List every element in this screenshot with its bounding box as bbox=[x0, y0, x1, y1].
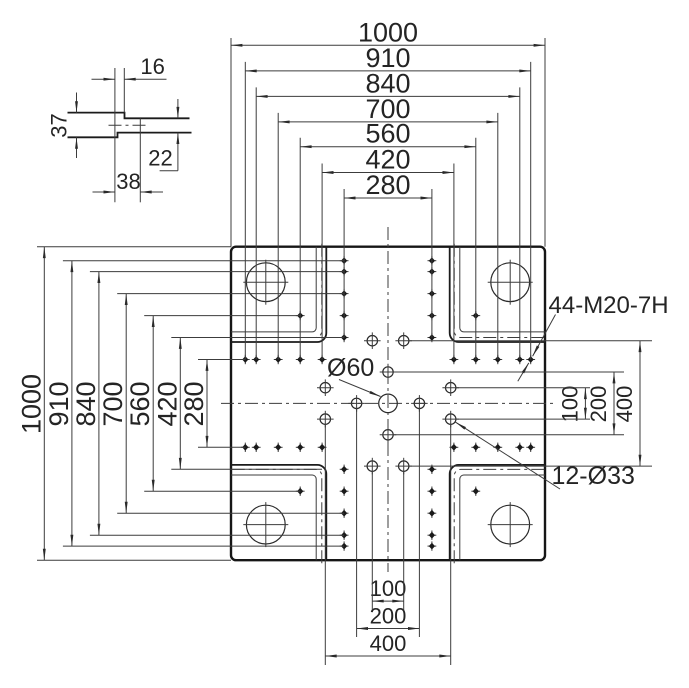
svg-text:200: 200 bbox=[370, 604, 407, 629]
dimension 420 (left chain) bbox=[179, 338, 181, 470]
dimension 16 (detail) bbox=[92, 78, 115, 80]
detail extension line V2 bbox=[123, 68, 125, 113]
tie-bar hole bottom-left bbox=[243, 502, 288, 547]
12x O33 holes bbox=[317, 332, 459, 474]
svg-text:400: 400 bbox=[612, 386, 637, 423]
svg-text:400: 400 bbox=[370, 631, 407, 656]
platen plate outline 1000x1000 bbox=[231, 247, 545, 561]
right chain extension lines bbox=[393, 341, 652, 466]
dimension 200 (right chain) bbox=[613, 372, 615, 435]
M20 tapped holes: bottom row y=+140 bbox=[241, 443, 535, 452]
svg-text:700: 700 bbox=[98, 381, 128, 426]
central O60 hole bbox=[379, 394, 398, 413]
svg-text:37: 37 bbox=[47, 113, 72, 137]
dimension 700 (top chain) bbox=[278, 121, 498, 123]
dimension 840 (left chain) bbox=[98, 272, 100, 536]
dimension 840 (top chain) bbox=[256, 95, 520, 97]
svg-text:200: 200 bbox=[586, 386, 611, 423]
svg-text:280: 280 bbox=[179, 381, 209, 426]
M20 tapped holes: left column x=-140 bbox=[340, 256, 349, 551]
svg-text:22: 22 bbox=[148, 146, 172, 171]
dimension 420 (top chain) bbox=[322, 172, 454, 174]
M20 tapped holes: top row y=-140 bbox=[241, 355, 535, 364]
corner pad top-left bbox=[228, 244, 326, 342]
svg-text:12-Ø33: 12-Ø33 bbox=[552, 462, 635, 490]
top chain extension lines bbox=[231, 38, 545, 360]
svg-text:100: 100 bbox=[370, 576, 407, 601]
leader for 12-O33 bbox=[456, 422, 560, 489]
dimension 1000 (left chain) bbox=[43, 247, 45, 561]
dimension 400 (right chain) bbox=[639, 341, 641, 466]
detail extension line V1 bbox=[114, 68, 116, 202]
svg-text:910: 910 bbox=[44, 381, 74, 426]
dimension 700 (left chain) bbox=[125, 294, 127, 514]
dimension 560 (top chain) bbox=[300, 146, 476, 148]
svg-text:44-M20-7H: 44-M20-7H bbox=[549, 292, 669, 319]
svg-text:16: 16 bbox=[140, 54, 164, 79]
corner pad bottom-right bbox=[450, 465, 548, 563]
tie-bar hole top-right bbox=[488, 260, 533, 305]
dimension 100 (right chain) bbox=[584, 388, 586, 419]
dimension 37 (detail) bbox=[76, 93, 78, 113]
detail view: T-slot cross-section profile bbox=[68, 113, 192, 138]
svg-text:420: 420 bbox=[152, 381, 182, 426]
svg-text:Ø60: Ø60 bbox=[327, 354, 374, 382]
dimension 280 (top chain) bbox=[344, 197, 432, 199]
bottom chain extension lines bbox=[325, 409, 450, 665]
svg-text:840: 840 bbox=[71, 381, 101, 426]
tie-bar hole top-left bbox=[243, 260, 288, 305]
svg-text:1000: 1000 bbox=[16, 374, 46, 434]
dimension 38 (detail) bbox=[93, 191, 115, 193]
leader for 44-M20-7H (lower) bbox=[518, 363, 529, 381]
dimension 22 (detail) bbox=[177, 99, 179, 118]
dimension 560 (left chain) bbox=[152, 316, 154, 492]
M20 tapped holes in corner pads (x=+-280,y=+-280) bbox=[296, 311, 480, 496]
corner pad bottom-left bbox=[228, 465, 326, 563]
dimension 200 (bottom chain) bbox=[357, 628, 420, 630]
svg-text:560: 560 bbox=[125, 381, 155, 426]
svg-text:100: 100 bbox=[557, 386, 582, 423]
dimension 1000 (top chain) bbox=[231, 44, 545, 46]
dimension 910 (left chain) bbox=[71, 261, 73, 546]
dimension 910 (top chain) bbox=[245, 70, 530, 72]
horizontal centerline bbox=[221, 402, 554, 404]
svg-text:38: 38 bbox=[116, 169, 140, 194]
detail extension line V3 bbox=[139, 118, 141, 202]
leader for 44-M20-7H (upper) bbox=[533, 315, 556, 357]
dimension 280 (left chain) bbox=[206, 360, 208, 448]
vertical centerline bbox=[387, 227, 389, 572]
corner pad top-right bbox=[450, 244, 548, 342]
leader for O60 bbox=[339, 380, 381, 397]
dimension 400 (bottom chain) bbox=[325, 655, 450, 657]
detail centerline bbox=[109, 124, 147, 126]
svg-text:280: 280 bbox=[365, 170, 410, 200]
left chain extension lines bbox=[37, 247, 344, 561]
M20 tapped holes: right column x=+140 bbox=[428, 256, 437, 551]
dimension 100 (bottom chain) bbox=[372, 600, 403, 602]
tie-bar hole bottom-right bbox=[488, 502, 533, 547]
